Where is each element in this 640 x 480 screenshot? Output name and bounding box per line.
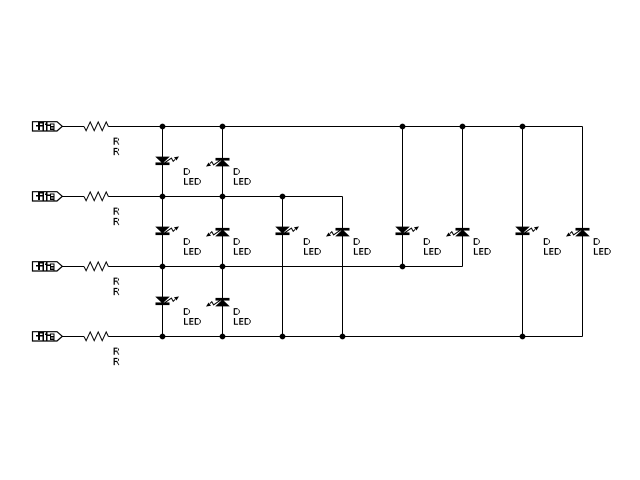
LED D1 (cathode-down) <box>156 157 178 165</box>
LED D5 designator D <box>304 238 310 245</box>
wire row 3 net <box>108 266 462 268</box>
LED D7 value LED <box>424 248 441 255</box>
resistor R3 value R <box>114 288 120 295</box>
port P2 label glyphs <box>36 192 55 201</box>
resistor R2 value R <box>114 218 120 225</box>
LED D2 designator D <box>234 168 240 175</box>
wire column 4 net <box>342 197 344 337</box>
wire row 4 net <box>108 336 582 338</box>
junction row4-col2 <box>220 334 225 339</box>
wire column 2 net <box>222 127 224 337</box>
wire column 1 net <box>162 127 164 337</box>
resistor R2 designator R <box>114 208 120 215</box>
LED D10 value LED <box>594 248 611 255</box>
port P3 (row 3 input) <box>33 262 63 271</box>
LED D9 (cathode-down) <box>516 227 538 235</box>
junction row2-col3 <box>280 194 285 199</box>
resistor R1 value R <box>114 148 120 155</box>
junction row2-col2 <box>220 194 225 199</box>
LED D2 (cathode-up) <box>207 158 229 166</box>
LED D10 designator D <box>594 238 600 245</box>
resistor R3 <box>84 262 108 271</box>
resistor R4 value R <box>114 358 120 365</box>
wire row 2 net <box>108 196 342 198</box>
resistor R4 <box>84 332 108 341</box>
port P4 label glyphs <box>36 332 55 341</box>
LED D11 designator D <box>184 308 190 315</box>
junction row1-col5 <box>400 124 405 129</box>
junction row1-col1 <box>160 124 165 129</box>
LED D1 value LED <box>184 178 201 185</box>
junction row1-col2 <box>220 124 225 129</box>
LED D4 designator D <box>234 238 240 245</box>
LED D5 value LED <box>304 248 321 255</box>
LED D12 value LED <box>234 318 251 325</box>
LED D4 (cathode-up) <box>207 228 229 236</box>
junction row4-col1 <box>160 334 165 339</box>
LED D3 value LED <box>184 248 201 255</box>
junction row1-col7 <box>520 124 525 129</box>
LED D5 (cathode-down) <box>276 227 298 235</box>
port P3 label glyphs <box>36 262 55 271</box>
wire column 3 net <box>282 197 284 337</box>
LED D6 designator D <box>354 238 360 245</box>
wire port P3 to resistor R3 <box>62 266 84 268</box>
LED D3 designator D <box>184 238 190 245</box>
LED D6 (cathode-up) <box>327 228 349 236</box>
resistor R4 designator R <box>114 348 120 355</box>
LED D9 designator D <box>544 238 550 245</box>
wire port P2 to resistor R2 <box>62 196 84 198</box>
LED D8 value LED <box>474 248 491 255</box>
wire port P1 to resistor R1 <box>62 126 84 128</box>
wire port P4 to resistor R4 <box>62 336 84 338</box>
junction row4-col4 <box>340 334 345 339</box>
junction row4-col3 <box>280 334 285 339</box>
wire column 5 net <box>402 127 404 267</box>
LED D12 (cathode-up) <box>207 298 229 306</box>
LED D1 designator D <box>184 168 190 175</box>
junction row2-col1 <box>160 194 165 199</box>
junction row1-col6 <box>460 124 465 129</box>
wire row 1 net <box>108 126 582 128</box>
LED D7 (cathode-down) <box>396 227 418 235</box>
resistor R1 <box>84 122 108 131</box>
LED D11 (cathode-down) <box>156 297 178 305</box>
resistor R3 designator R <box>114 278 120 285</box>
wire column 6 net <box>462 127 464 267</box>
LED D6 value LED <box>354 248 371 255</box>
port P1 label glyphs <box>36 122 55 131</box>
resistor R1 designator R <box>114 138 120 145</box>
resistor R2 <box>84 192 108 201</box>
port P4 (row 4 input) <box>33 332 63 341</box>
LED D3 (cathode-down) <box>156 227 178 235</box>
wire column 7 net <box>522 127 524 337</box>
wire column 8 net <box>582 127 584 337</box>
junction row3-col2 <box>220 264 225 269</box>
LED D4 value LED <box>234 248 251 255</box>
port P1 (row 1 input) <box>33 122 63 131</box>
LED D8 (cathode-up) <box>447 228 469 236</box>
LED D7 designator D <box>424 238 430 245</box>
port P2 (row 2 input) <box>33 192 63 201</box>
junction row4-col7 <box>520 334 525 339</box>
LED D9 value LED <box>544 248 561 255</box>
junction row3-col1 <box>160 264 165 269</box>
LED D12 designator D <box>234 308 240 315</box>
LED D10 (cathode-up) <box>567 228 589 236</box>
LED D2 value LED <box>234 178 251 185</box>
LED D11 value LED <box>184 318 201 325</box>
junction row3-col5 <box>400 264 405 269</box>
LED D8 designator D <box>474 238 480 245</box>
